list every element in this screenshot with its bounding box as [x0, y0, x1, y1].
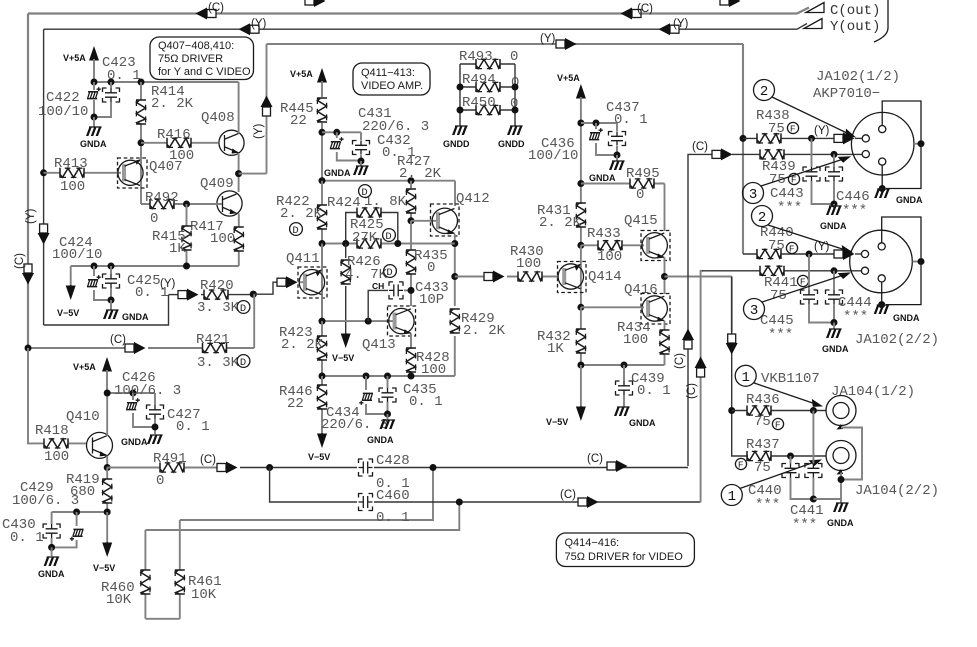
node (C) arrow on top bus left: [196, 8, 217, 20]
resistor R433: [598, 240, 622, 250]
wire Q412 emitter down: [454, 234, 456, 376]
svg-text:VKB1107: VKB1107: [761, 371, 820, 387]
svg-text:JA102(2/2): JA102(2/2): [855, 332, 939, 348]
svg-text:GNDA: GNDA: [324, 168, 351, 178]
resistor R450: [460, 109, 515, 111]
svg-text:(Y): (Y): [814, 125, 830, 137]
wire y=266 cap rail: [71, 266, 239, 286]
svg-text:(C): (C): [14, 253, 26, 269]
ground GNDA under JA102(2/2): [874, 305, 890, 314]
svg-text:(C): (C): [110, 334, 126, 346]
svg-text:2. 2K: 2. 2K: [280, 206, 323, 222]
svg-text:JA102(1/2): JA102(1/2): [816, 69, 900, 85]
svg-text:75: 75: [768, 121, 785, 137]
wire R439 line y=154.4: [732, 153, 862, 155]
capacitor C424: [94, 266, 111, 300]
svg-text:GNDA: GNDA: [822, 344, 849, 354]
ground GNDA under jacks: [833, 503, 849, 512]
svg-text:for Y and C VIDEO: for Y and C VIDEO: [158, 66, 251, 78]
svg-text:GNDA: GNDA: [896, 195, 923, 205]
svg-text:3: 3: [749, 187, 757, 203]
svg-text:(C): (C): [692, 141, 708, 153]
wire rail y=82: [94, 81, 239, 83]
node (C) down arrow on x=28: [22, 264, 34, 285]
node circled 3 pointer to pin (conn2): [744, 299, 765, 320]
svg-text:Q414−416:: Q414−416:: [565, 537, 620, 549]
svg-text:3. 3K: 3. 3K: [197, 355, 240, 371]
transistor Q407: [118, 158, 148, 188]
svg-text:0: 0: [427, 260, 435, 276]
resistor R491: [160, 463, 184, 473]
ground GNDA under C437: [614, 152, 621, 159]
wire Y drop x=743: [742, 44, 744, 254]
svg-text:JA104(1/2): JA104(1/2): [831, 384, 915, 400]
ground GNDA under C422: [91, 114, 98, 121]
wire rail y=365: [581, 364, 665, 366]
ground GNDD right: [507, 126, 523, 135]
wire R436 line y=410.5: [732, 410, 826, 412]
node (C) arrow on R491 out: [217, 462, 238, 474]
svg-text:(C): (C): [637, 3, 653, 15]
capacitor C443: [812, 138, 835, 204]
wire Q410 emitter: [106, 456, 108, 468]
svg-text:0: 0: [150, 211, 158, 227]
svg-text:75: 75: [754, 414, 771, 430]
node circled 2 pointer to pin (conn2): [752, 206, 773, 227]
svg-text:R493: R493: [459, 49, 493, 65]
svg-text:2. 2K: 2. 2K: [399, 166, 442, 182]
node A top cut arrow 1: [305, 0, 326, 7]
ground GNDA under JA102(1/2): [874, 189, 890, 198]
resistor R415: [186, 204, 188, 266]
svg-text:R450: R450: [462, 95, 496, 111]
svg-text:R494: R494: [462, 72, 496, 88]
node (C) arrow on top bus right: [621, 8, 642, 20]
svg-text:Q416: Q416: [624, 282, 658, 298]
resistor R438: [757, 133, 781, 143]
wire cap rail y=512: [52, 512, 108, 524]
wire R437 line y=456: [747, 455, 826, 457]
svg-text:(C): (C): [674, 353, 686, 369]
svg-text:22: 22: [287, 396, 304, 412]
wire jack1 ground loop: [841, 428, 862, 480]
resistor R492: [141, 203, 187, 205]
svg-text:Y(out): Y(out): [830, 19, 880, 35]
V+5A supply left: [89, 46, 99, 61]
resistor R414: [140, 82, 142, 204]
node (C) up arrow on x=687: [682, 329, 694, 350]
svg-text:100: 100: [623, 332, 648, 348]
ground GNDA under C443/C446: [831, 201, 838, 208]
wire Q412 base: [408, 217, 415, 224]
node down arrow on x=732: [726, 334, 738, 355]
caption box Q414-416: [556, 533, 694, 567]
capacitor C460: [358, 494, 373, 511]
capacitor C433: [368, 290, 388, 321]
jack JA104 (1/2): [826, 396, 856, 426]
wire C(out) flag: [806, 3, 824, 13]
wire Q410 collector: [106, 393, 108, 436]
svg-text:1: 1: [742, 370, 750, 386]
svg-text:100/6. 3: 100/6. 3: [114, 383, 181, 399]
svg-text:(C): (C): [200, 454, 216, 466]
transistor Q410: [87, 432, 113, 458]
svg-text:1: 1: [728, 489, 736, 505]
capacitor C425: [110, 266, 112, 300]
node (Y) arrow on Y bus left: [239, 23, 260, 35]
svg-text:***: ***: [792, 517, 817, 533]
node (Y) arrow on y44: [556, 38, 577, 50]
wire sheet bracket: [874, 0, 888, 42]
svg-text:R495: R495: [626, 166, 660, 182]
wire R460/R461 bottom join: [145, 618, 179, 620]
transistor Q408: [219, 130, 244, 155]
svg-text:100/6. 3: 100/6. 3: [12, 493, 79, 509]
wire Y loop bottom: [44, 295, 169, 325]
svg-text:V−5V: V−5V: [57, 308, 79, 318]
resistor R429: [448, 306, 461, 336]
svg-text:GNDD: GNDD: [498, 139, 525, 149]
node (Y) up arrow: [261, 96, 273, 117]
svg-text:0: 0: [156, 473, 164, 489]
svg-text:75Ω DRIVER: 75Ω DRIVER: [158, 53, 223, 65]
node B top cut arrow 2: [720, 0, 741, 7]
resistor R426: [345, 244, 347, 335]
wire (Y) output up from emitter node: [239, 44, 267, 174]
wire Y bus: [44, 24, 807, 30]
resistor R445: [317, 98, 327, 122]
svg-text:R421: R421: [196, 332, 230, 348]
wire jog to Q411 base: [253, 282, 277, 294]
svg-text:R424: R424: [327, 195, 361, 211]
svg-text:C(out): C(out): [830, 3, 880, 19]
wire Q414 rail: [580, 245, 582, 307]
V-5V arrow left: [66, 285, 76, 300]
svg-text:22: 22: [290, 113, 307, 129]
capacitor C431 electrolytic: [337, 132, 361, 160]
wire C chroma riser x=687: [688, 154, 712, 466]
svg-text:R418: R418: [35, 423, 69, 439]
svg-text:0. 1: 0. 1: [376, 510, 410, 526]
svg-text:GNDA: GNDA: [629, 418, 656, 428]
svg-text:GNDA: GNDA: [893, 313, 920, 323]
capacitor C427: [154, 393, 156, 434]
node (C) up arrow on x=701: [695, 357, 707, 378]
svg-text:V+5A: V+5A: [63, 53, 86, 63]
svg-text:R491: R491: [153, 451, 187, 467]
wire left rail x=460: [459, 64, 461, 126]
svg-text:1K: 1K: [547, 341, 564, 357]
resistor R424: [357, 208, 381, 218]
node circled 1 pointer VKB1107: [735, 365, 756, 386]
wire C460 line: [270, 468, 701, 503]
capacitor C429 electrolytic: [52, 512, 77, 547]
connector JA102 (2/2) DIN: [850, 230, 913, 293]
svg-text:10P: 10P: [419, 292, 444, 308]
svg-text:GNDA: GNDA: [367, 435, 394, 445]
svg-text:3. 3K: 3. 3K: [197, 300, 240, 316]
resistor R460: [144, 530, 146, 619]
resistor R421: [203, 343, 227, 353]
svg-text:0. 1: 0. 1: [614, 112, 648, 128]
resistor R434: [660, 330, 670, 354]
caption box Q411-413: [353, 63, 430, 95]
transistor Q409: [217, 191, 242, 216]
node arrow into R430: [484, 271, 505, 283]
resistor R436: [747, 406, 771, 416]
svg-text:Q413: Q413: [362, 337, 396, 353]
svg-text:Q411: Q411: [286, 251, 320, 267]
resistor R494: [460, 86, 515, 88]
capacitor C439: [623, 365, 625, 407]
svg-text:100: 100: [210, 231, 235, 247]
node circled 1 pointer to jack2: [721, 485, 742, 506]
capacitor C446: [833, 154, 835, 204]
capacitor C437: [609, 131, 626, 146]
svg-text:***: ***: [777, 200, 802, 216]
wire right rail x=515: [514, 64, 516, 126]
wire cap bottoms to ground: [813, 498, 841, 500]
transistor Q413: [388, 306, 416, 336]
svg-text:75: 75: [768, 238, 785, 254]
ground GNDA under C439: [614, 407, 630, 416]
svg-text:V−5V: V−5V: [308, 452, 330, 462]
svg-text:0. 1: 0. 1: [409, 394, 443, 410]
resistor R422: [321, 181, 323, 321]
capacitor C426: [133, 393, 155, 427]
svg-text:V−5V: V−5V: [332, 353, 354, 363]
svg-text:R437: R437: [746, 437, 780, 453]
svg-text:Q414: Q414: [588, 269, 622, 285]
svg-text:(Y): (Y): [673, 18, 689, 30]
svg-text:3: 3: [750, 303, 758, 319]
ground GNDA under C427: [152, 424, 159, 431]
transistor Q411: [298, 267, 327, 298]
capacitor C445: [809, 254, 834, 323]
resistor R432: [580, 307, 582, 365]
resistor R441: [760, 266, 784, 276]
transistor Q415: [641, 231, 670, 261]
capacitor C423: [94, 82, 111, 117]
svg-text:0: 0: [636, 187, 644, 203]
wire Q408 collector to rail: [238, 82, 240, 133]
svg-text:V−5V: V−5V: [546, 417, 568, 427]
svg-text:GNDA: GNDA: [80, 139, 107, 149]
resistor R431: [580, 227, 582, 245]
resistor R446: [321, 376, 323, 434]
svg-text:V+5A: V+5A: [73, 362, 96, 372]
svg-text:75Ω DRIVER for VIDEO: 75Ω DRIVER for VIDEO: [565, 551, 684, 563]
capacitor C444: [833, 271, 835, 323]
wire video drop x=732: [732, 277, 748, 457]
node (C) arrow on C460 line: [578, 496, 599, 508]
svg-text:***: ***: [843, 309, 868, 325]
transistor Q414: [558, 262, 587, 293]
V+5A supply right: [576, 84, 586, 99]
wire Q411 collector/emitter rail: [321, 244, 323, 271]
node Y+C sum: [250, 291, 257, 298]
svg-text:Q412: Q412: [456, 191, 490, 207]
capacitor C428: [358, 459, 373, 476]
resistor R423: [321, 321, 323, 376]
capacitor C434 electrolytic: [366, 376, 388, 414]
svg-text:V+5A: V+5A: [557, 73, 580, 83]
svg-text:R433: R433: [587, 226, 621, 242]
svg-text:GNDD: GNDD: [443, 139, 470, 149]
svg-text:AKP7010−: AKP7010−: [813, 86, 880, 102]
svg-text:(C): (C): [208, 2, 224, 14]
svg-text:1. 8K: 1. 8K: [364, 194, 407, 210]
svg-text:***: ***: [768, 327, 793, 343]
jack JA104 (2/2): [826, 441, 856, 471]
node (Y) arrow on Y bus right: [659, 23, 680, 35]
svg-text:GNDA: GNDA: [589, 173, 616, 183]
svg-text:0. 1: 0. 1: [637, 383, 671, 399]
transistor Q407 circle: [118, 160, 143, 185]
svg-text:(Y): (Y): [25, 209, 37, 225]
wire rail y=393: [107, 392, 155, 394]
svg-text:(Y): (Y): [251, 18, 267, 30]
svg-text:GNDA: GNDA: [820, 221, 847, 231]
wire R420 feed: [169, 294, 179, 296]
resistor R413: [40, 169, 47, 176]
wire R461 top to C428 out: [180, 468, 433, 521]
svg-text:0: 0: [510, 49, 518, 65]
wire R430 line y=276.5: [455, 276, 484, 278]
svg-text:100/10: 100/10: [52, 247, 102, 263]
resistor R437: [747, 451, 771, 461]
svg-text:***: ***: [755, 497, 780, 513]
resistor R417: [234, 227, 244, 251]
caption box Q407-408,410: [150, 37, 254, 80]
svg-text:Q408: Q408: [201, 110, 235, 126]
svg-text:100: 100: [60, 179, 85, 195]
svg-text:1K: 1K: [169, 241, 186, 257]
wire C460 riser x=701: [701, 271, 703, 502]
svg-text:2. 2K: 2. 2K: [151, 96, 194, 112]
svg-text:R436: R436: [746, 392, 780, 408]
R424/R425 parallel loop: [346, 213, 357, 244]
resistor R418: [68, 442, 87, 444]
wire jack2 ground: [840, 473, 842, 504]
svg-text:10K: 10K: [106, 592, 132, 608]
wire rail y=181: [322, 181, 455, 206]
svg-text:R492: R492: [145, 190, 179, 206]
ground GNDA under C435: [384, 411, 391, 418]
svg-text:GNDA: GNDA: [38, 569, 65, 579]
wire R433 line: [577, 242, 584, 249]
transistor Q412: [431, 204, 460, 236]
node (C) arrow on C428 line: [607, 460, 628, 472]
svg-text:100/10: 100/10: [528, 148, 578, 164]
node (Y) down arrow on x=43: [38, 224, 50, 245]
wire R438 line y=138.4: [740, 135, 747, 142]
wire Y line to drivers y=44: [267, 43, 744, 45]
V-5V arrow under R419: [106, 512, 108, 543]
V+5A supply low-left: [102, 357, 112, 372]
wire C431 branch: [319, 129, 326, 136]
svg-text:2. 2K: 2. 2K: [539, 215, 582, 231]
resistor R419: [106, 468, 108, 513]
svg-text:100: 100: [44, 449, 69, 465]
svg-text:R420: R420: [200, 278, 234, 294]
connector JA102 (1/2) DIN: [851, 112, 914, 175]
svg-text:2. 2K: 2. 2K: [463, 323, 506, 339]
resistor R493: [460, 63, 515, 65]
svg-text:2: 2: [758, 210, 766, 226]
resistor R420: [201, 294, 253, 296]
wire R460 top to C460 out: [145, 502, 459, 530]
wire C428 line: [240, 467, 688, 469]
ground GNDA under C432: [358, 158, 365, 165]
node (C) arrow into R439: [712, 148, 733, 160]
svg-text:(Y): (Y): [253, 124, 265, 140]
resistor R495: [630, 179, 654, 189]
wire R440 line y=254: [743, 253, 834, 255]
resistor R440: [757, 249, 781, 259]
transistor Q416: [641, 294, 670, 325]
svg-text:27K: 27K: [352, 230, 378, 246]
V-5V arrow under R446: [317, 433, 327, 448]
capacitor C430: [43, 524, 60, 539]
wire Q408 emitter down: [238, 153, 240, 192]
V-5V arrow mid: [341, 333, 351, 348]
svg-text:V+5A: V+5A: [290, 69, 313, 79]
wire R441 line y=270.8: [702, 270, 862, 272]
svg-text:0. 1: 0. 1: [10, 530, 44, 546]
svg-text:Q407: Q407: [149, 159, 183, 175]
ground GNDA under C425: [108, 297, 115, 304]
resistor R435: [410, 221, 412, 306]
resistor R461: [179, 520, 181, 619]
capacitor C436 electrolytic: [596, 123, 617, 155]
wire Q416 base: [577, 304, 584, 311]
svg-text:100: 100: [516, 256, 541, 272]
svg-text:GNDA: GNDA: [122, 312, 149, 322]
resistor R430: [518, 272, 542, 282]
wire Q409 emitter to R417: [238, 214, 240, 267]
svg-text:CH: CH: [372, 281, 384, 291]
svg-text:GNDA: GNDA: [121, 437, 148, 447]
wire R491 line: [107, 467, 217, 469]
capacitor C441: [812, 411, 814, 500]
wire video out node to x=732: [665, 277, 732, 333]
wire Q415 emitter down to video node: [664, 258, 666, 295]
ground GNDA under C444/C445: [831, 319, 838, 326]
svg-text:(C): (C): [587, 453, 603, 465]
svg-text:(C): (C): [560, 489, 576, 501]
svg-text:R416: R416: [157, 127, 191, 143]
resistor R416: [138, 139, 145, 146]
svg-text:C460: C460: [376, 488, 410, 504]
svg-text:V−5V: V−5V: [93, 563, 115, 573]
svg-text:100: 100: [597, 249, 622, 265]
wire Y(out) flag: [804, 19, 822, 29]
capacitor C432: [353, 140, 370, 155]
svg-text:Q409: Q409: [200, 176, 234, 192]
svg-text:GNDA: GNDA: [827, 518, 854, 528]
svg-text:JA104(2/2): JA104(2/2): [855, 483, 939, 499]
node (Y) arrow into R420: [178, 289, 199, 301]
svg-text:220/6. 3: 220/6. 3: [321, 417, 388, 433]
svg-text:75: 75: [754, 460, 771, 476]
node (C) arrow on y=348: [125, 342, 146, 354]
svg-text:(C): (C): [686, 383, 698, 399]
svg-text:0. 1: 0. 1: [107, 68, 141, 84]
wire C bus top: [28, 8, 809, 14]
wire Q416 emitter to R434: [664, 321, 666, 365]
ground GNDA under C430: [48, 544, 55, 551]
